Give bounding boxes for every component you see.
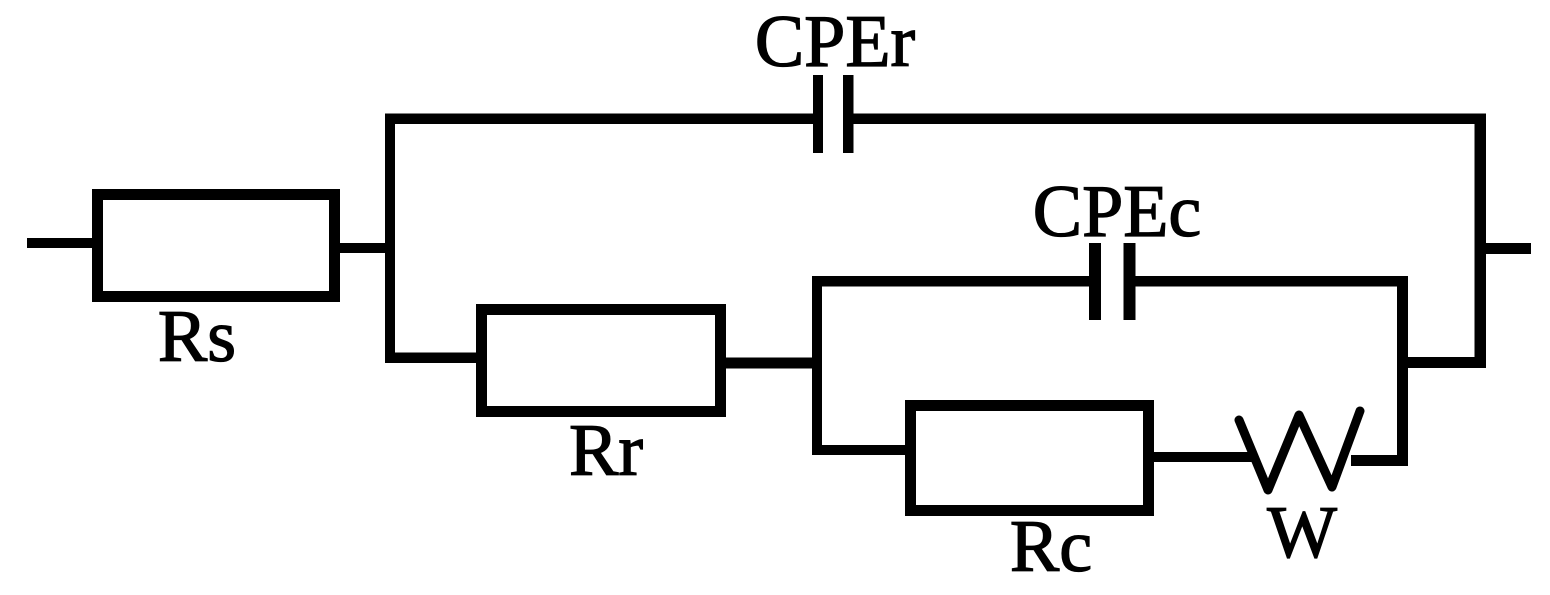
wire: outer loop right vertical (1475, 114, 1487, 369)
wire: right terminal stub (1480, 243, 1531, 254)
svg-text:W: W (1267, 492, 1337, 574)
svg-text:Rs: Rs (158, 296, 236, 378)
wire: Rc to Warburg element (1154, 452, 1254, 462)
capacitor CPEr (constant phase element) (813, 75, 854, 153)
svg-text:CPEr: CPEr (755, 1, 915, 83)
wire: inner loop right vertical (1397, 276, 1408, 466)
wire: Rr to inner parallel junction (726, 358, 817, 369)
resistor Rs (98, 195, 335, 297)
Warburg element W (zigzag) (1239, 411, 1360, 490)
wire: CPEc branch right segment (1136, 276, 1409, 287)
wire: top branch left segment (385, 114, 813, 125)
wire: left terminal stub (27, 238, 97, 248)
wire: inner loop left vertical (812, 276, 822, 455)
wire: inner junction to Rc (812, 445, 910, 455)
wire: Rs to outer parallel junction (334, 243, 390, 253)
wire: CPEc branch left segment (812, 276, 1089, 287)
wire: top branch right segment (853, 114, 1486, 125)
wire: outer-to-inner bottom connector (1397, 357, 1486, 368)
capacitor CPEc (constant phase element) (1089, 243, 1136, 320)
wire: outer loop left vertical (385, 114, 395, 364)
wire: Warburg element to inner loop right vertical (1351, 455, 1408, 466)
resistor Rr (482, 310, 721, 412)
svg-text:Rr: Rr (569, 410, 643, 492)
resistor Rc (911, 406, 1149, 511)
wire: outer junction to Rr (385, 353, 477, 364)
svg-text:Rc: Rc (1010, 506, 1092, 588)
svg-text:CPEc: CPEc (1033, 171, 1202, 253)
